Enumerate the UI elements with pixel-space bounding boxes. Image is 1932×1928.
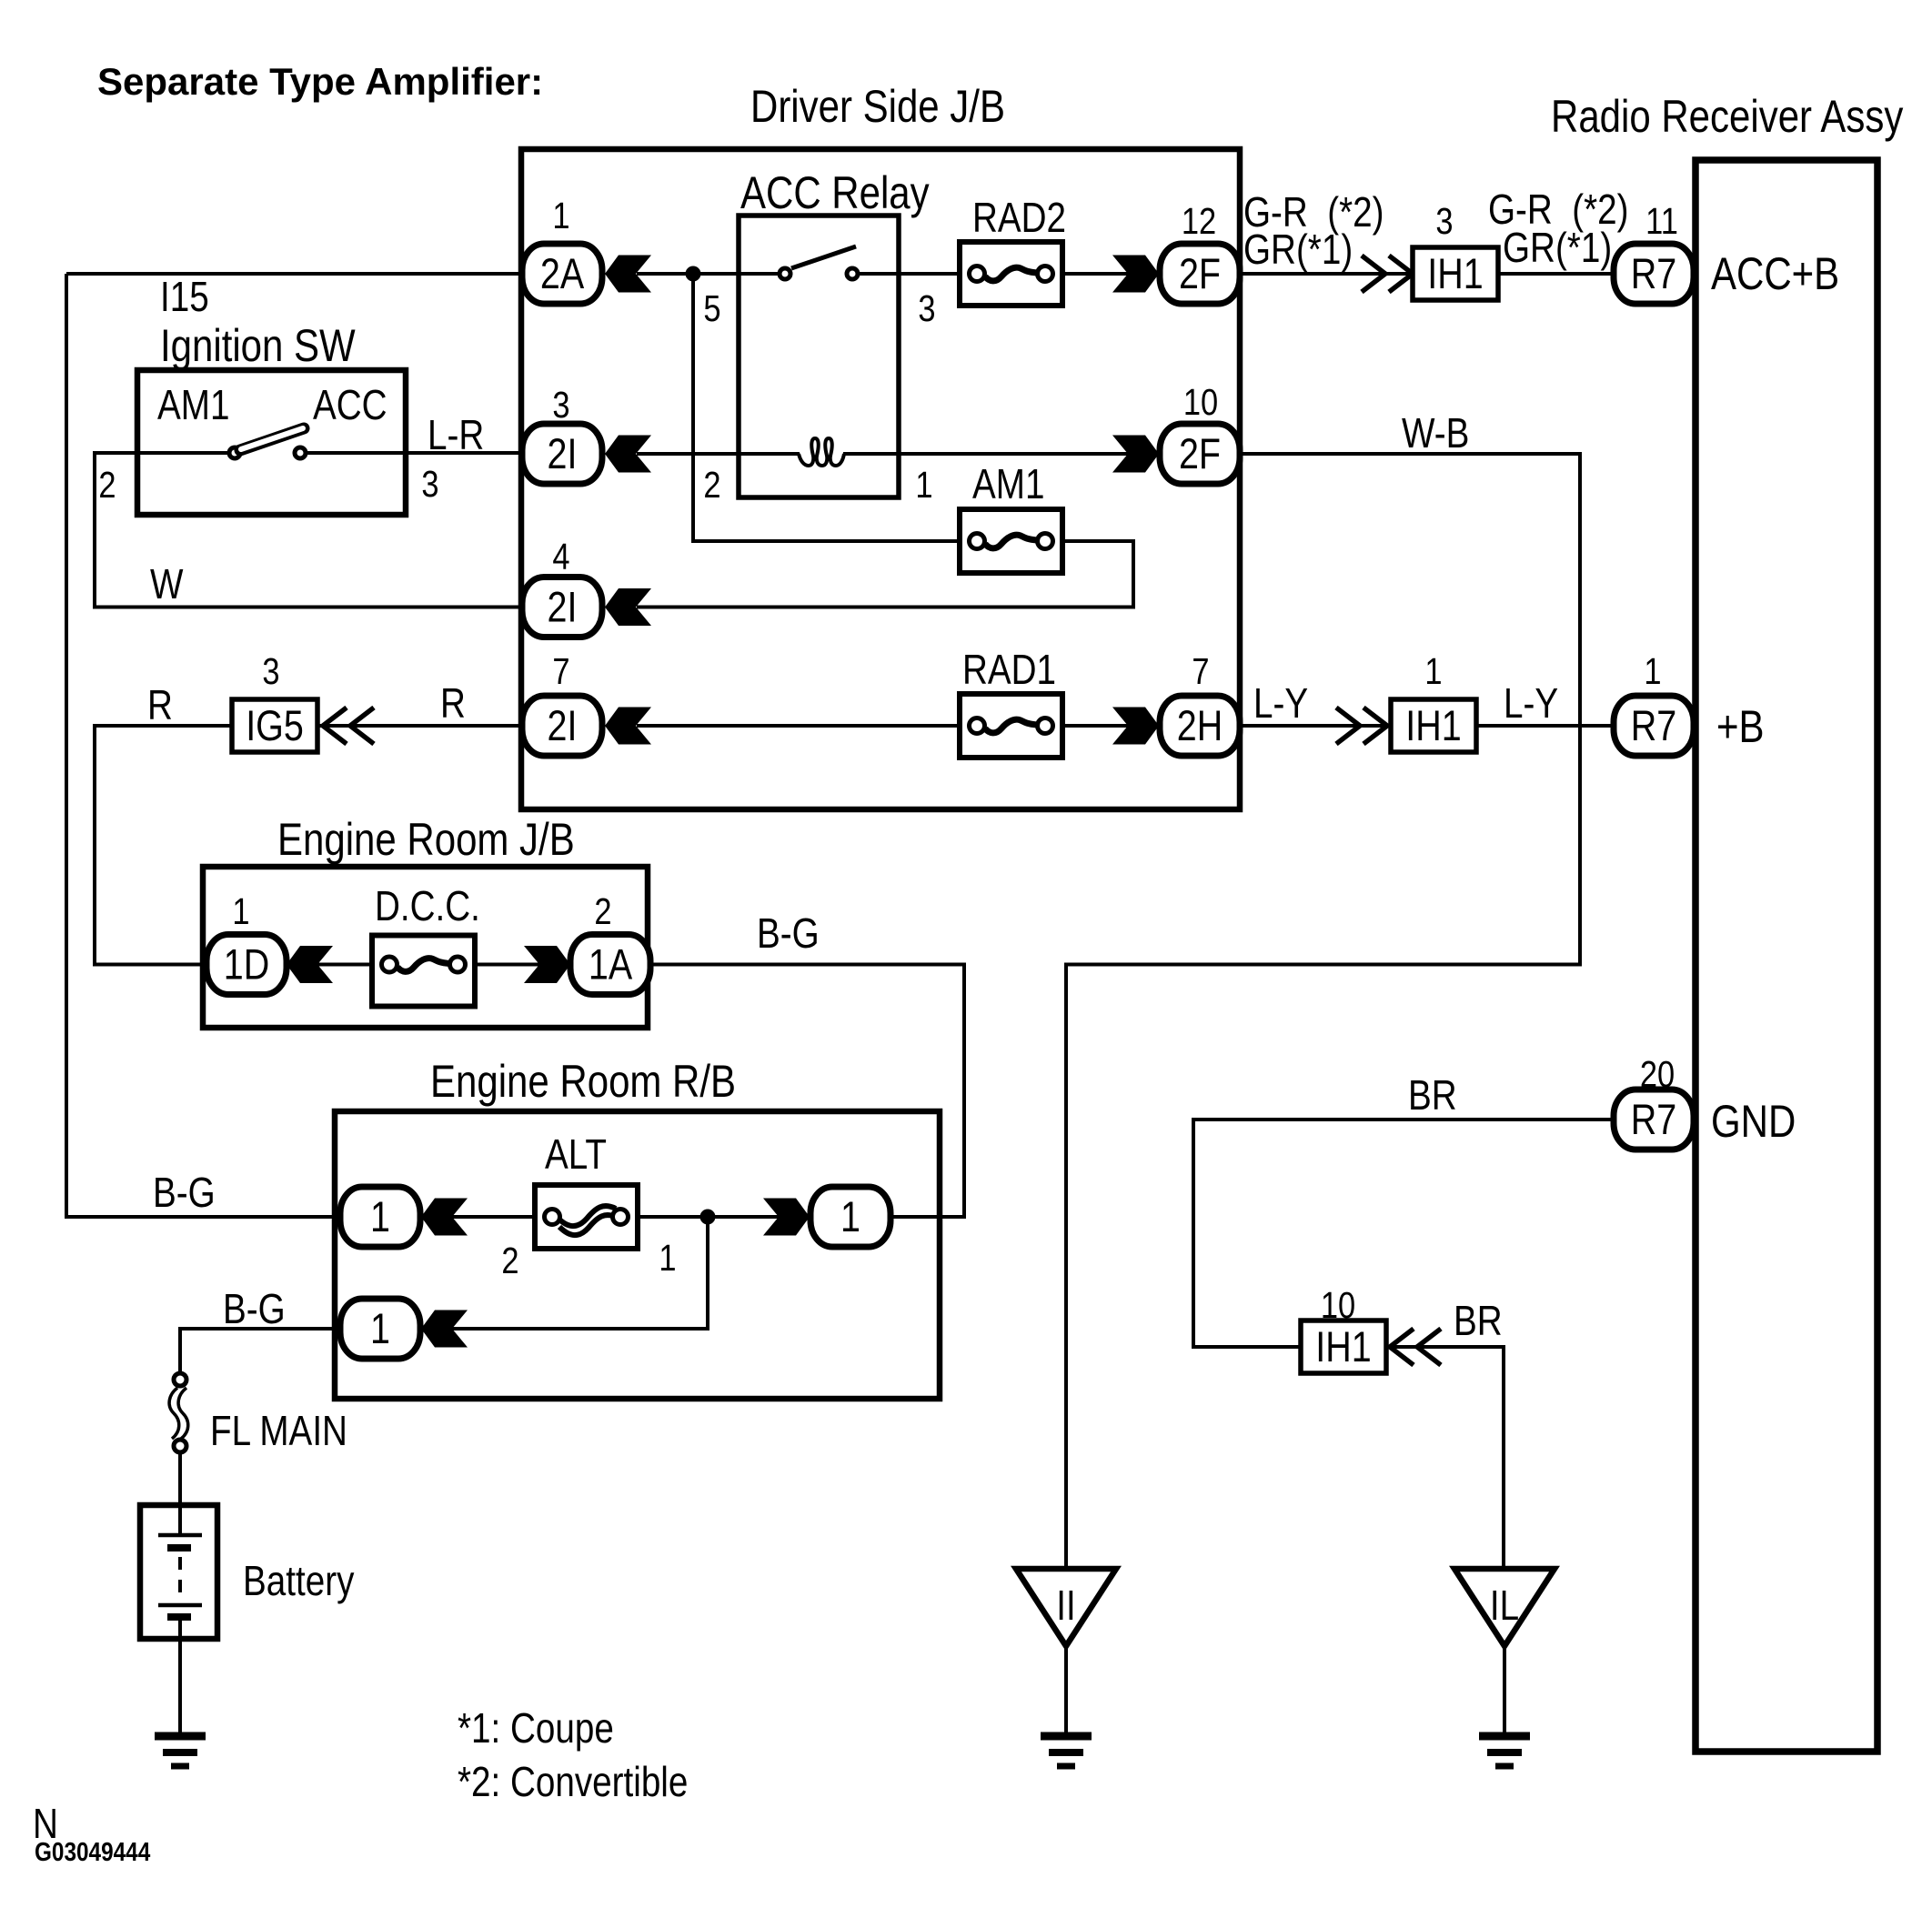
svg-text:II: II (1056, 1582, 1075, 1629)
svg-text:AM1: AM1 (157, 382, 229, 428)
svg-text:BR: BR (1408, 1072, 1457, 1119)
svg-text:D.C.C.: D.C.C. (375, 883, 480, 929)
svg-text:3: 3 (1435, 201, 1453, 242)
svg-text:1: 1 (370, 1194, 390, 1241)
svg-text:G03049444: G03049444 (35, 1837, 150, 1866)
svg-text:11: 11 (1645, 201, 1678, 242)
svg-text:Driver Side J/B: Driver Side J/B (750, 81, 1005, 132)
svg-text:ALT: ALT (545, 1131, 607, 1178)
svg-text:*2: Convertible: *2: Convertible (458, 1759, 688, 1805)
svg-text:GR(*1): GR(*1) (1243, 226, 1353, 273)
svg-text:L-Y: L-Y (1504, 680, 1558, 727)
svg-text:B-G: B-G (153, 1170, 216, 1216)
svg-text:4: 4 (552, 537, 569, 577)
svg-text:*1: Coupe: *1: Coupe (458, 1705, 614, 1752)
svg-text:12: 12 (1182, 201, 1216, 242)
svg-text:Ignition SW: Ignition SW (160, 320, 356, 371)
svg-text:10: 10 (1321, 1285, 1355, 1326)
svg-text:R7: R7 (1631, 703, 1676, 750)
svg-text:ACC+B: ACC+B (1711, 248, 1839, 299)
svg-text:W-B: W-B (1402, 410, 1469, 457)
svg-text:2F: 2F (1179, 431, 1221, 478)
svg-text:2: 2 (98, 465, 116, 506)
svg-text:Radio Receiver Assy: Radio Receiver Assy (1551, 91, 1903, 142)
svg-text:R: R (440, 680, 466, 727)
svg-text:GND: GND (1711, 1096, 1796, 1147)
svg-text:IG5: IG5 (246, 703, 304, 750)
svg-text:1: 1 (840, 1194, 860, 1241)
svg-text:5: 5 (703, 288, 720, 329)
svg-text:RAD1: RAD1 (962, 647, 1056, 693)
svg-text:L-R: L-R (428, 412, 484, 458)
svg-text:1: 1 (552, 196, 569, 236)
svg-text:20: 20 (1640, 1054, 1675, 1095)
svg-text:B-G: B-G (223, 1286, 286, 1332)
svg-text:Engine Room R/B: Engine Room R/B (430, 1056, 736, 1107)
svg-text:Engine Room J/B: Engine Room J/B (277, 814, 575, 865)
svg-text:2F: 2F (1179, 251, 1221, 298)
svg-text:3: 3 (262, 651, 279, 692)
svg-text:2I: 2I (548, 431, 578, 478)
svg-text:1D: 1D (224, 941, 269, 989)
svg-text:2I: 2I (548, 703, 578, 750)
svg-text:1A: 1A (589, 941, 632, 989)
svg-text:3: 3 (552, 385, 569, 426)
svg-text:1: 1 (659, 1238, 676, 1279)
svg-text:3: 3 (421, 464, 438, 505)
svg-text:10: 10 (1183, 382, 1218, 423)
svg-text:IH1: IH1 (1405, 703, 1461, 750)
svg-text:2A: 2A (540, 251, 584, 298)
svg-text:+B: +B (1716, 701, 1765, 752)
svg-text:B-G: B-G (757, 910, 820, 957)
svg-text:Separate Type Amplifier:: Separate Type Amplifier: (97, 60, 543, 103)
svg-text:IH1: IH1 (1315, 1324, 1371, 1371)
svg-text:W: W (150, 561, 183, 608)
svg-text:7: 7 (552, 651, 569, 692)
svg-text:R7: R7 (1631, 1097, 1676, 1144)
svg-text:IL: IL (1490, 1582, 1519, 1629)
svg-text:2H: 2H (1177, 703, 1223, 750)
svg-text:1: 1 (1424, 651, 1442, 692)
svg-text:R: R (147, 682, 173, 728)
svg-text:RAD2: RAD2 (972, 195, 1066, 241)
svg-text:BR: BR (1454, 1298, 1503, 1344)
svg-text:AM1: AM1 (972, 461, 1044, 507)
svg-text:2: 2 (703, 465, 720, 506)
svg-text:1: 1 (1644, 651, 1661, 692)
svg-text:I15: I15 (160, 274, 209, 320)
svg-text:2: 2 (501, 1240, 518, 1281)
svg-text:3: 3 (918, 288, 935, 329)
svg-text:1: 1 (915, 465, 932, 506)
svg-text:Battery: Battery (243, 1558, 355, 1604)
svg-text:L-Y: L-Y (1253, 680, 1308, 727)
svg-text:1: 1 (232, 891, 249, 932)
svg-text:GR(*1): GR(*1) (1503, 225, 1612, 271)
svg-text:ACC Relay: ACC Relay (740, 167, 930, 218)
svg-text:2: 2 (594, 891, 611, 932)
svg-text:R7: R7 (1631, 251, 1676, 298)
svg-text:7: 7 (1192, 651, 1209, 692)
svg-text:1: 1 (370, 1306, 390, 1353)
svg-text:ACC: ACC (313, 382, 387, 428)
svg-text:2I: 2I (548, 584, 578, 631)
svg-text:IH1: IH1 (1427, 251, 1483, 298)
svg-text:FL MAIN: FL MAIN (210, 1408, 347, 1454)
